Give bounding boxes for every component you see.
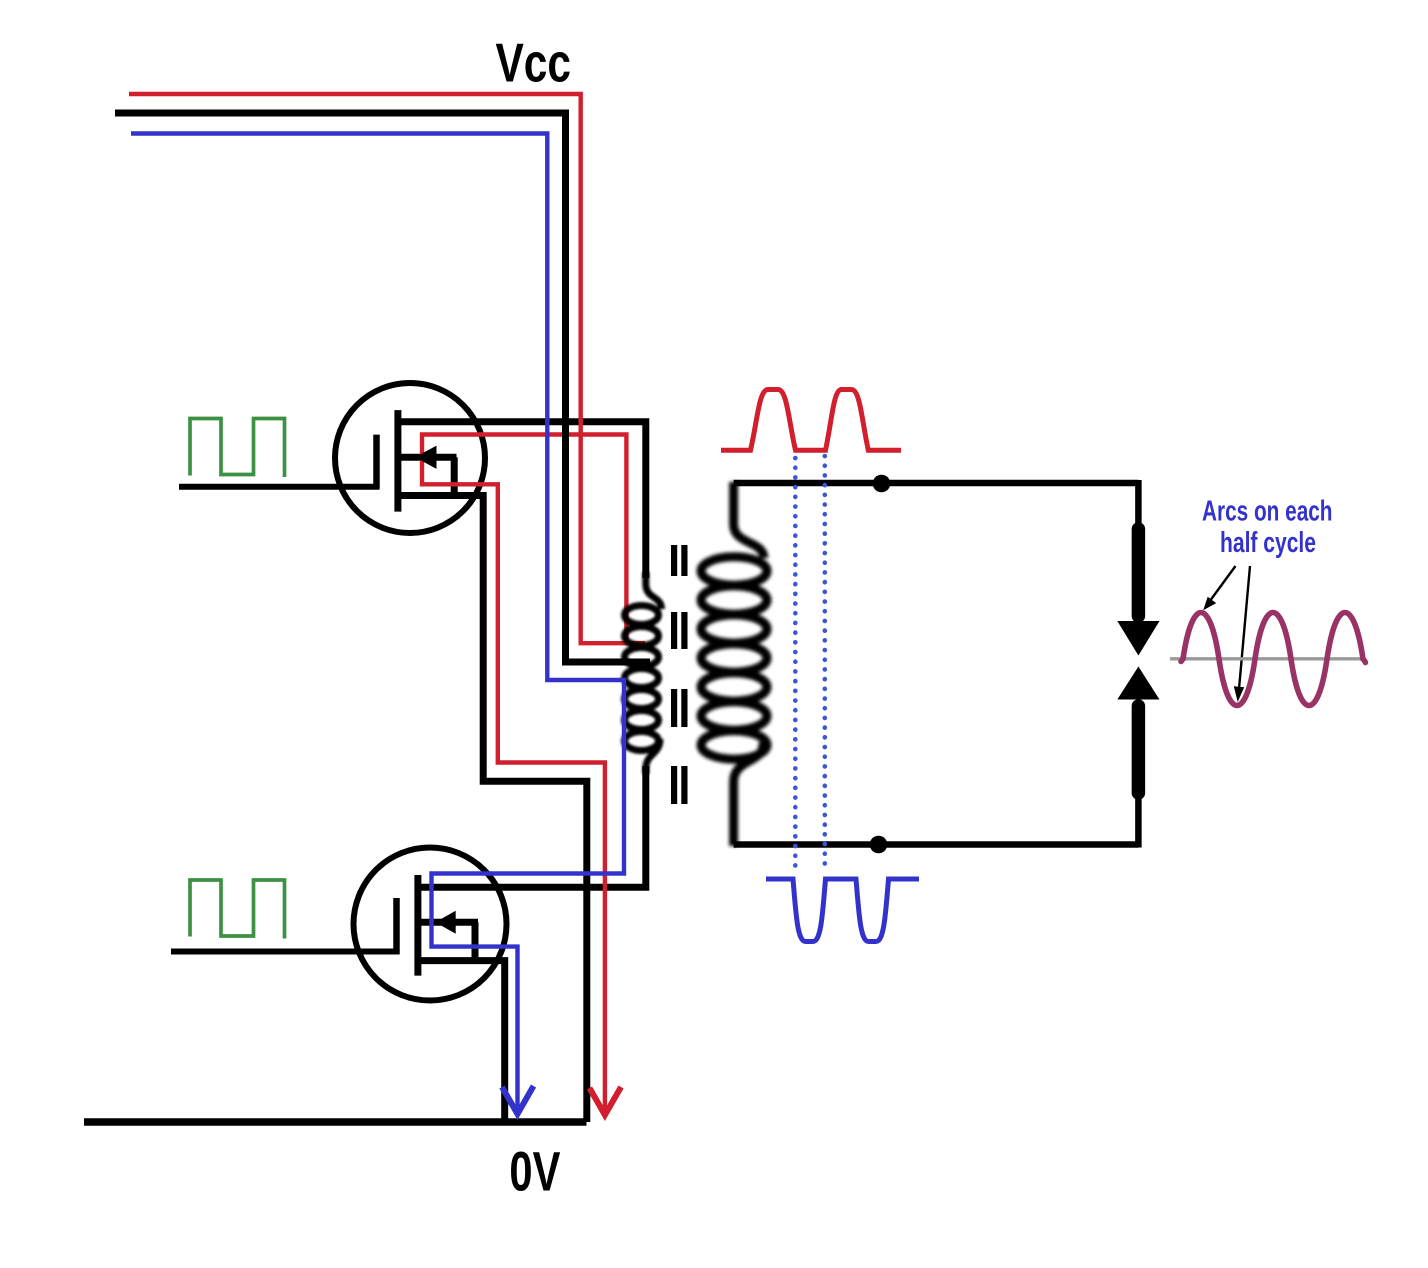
waveform purple output sine [1181,613,1365,706]
spark gap electrodes [1117,480,1159,848]
axis gray zero line [1170,657,1365,660]
wire drain Q2 to transformer primary bottom [418,766,646,887]
annotation arrow to first trough [1234,566,1250,702]
dotted guide line left [793,458,798,866]
wire secondary top [734,480,1139,487]
wire source Q2 down to 0V rail [418,961,505,1122]
svg-text:half cycle: half cycle [1220,527,1316,559]
node secondary top junction dot [873,475,891,493]
square wave gate drive signal Q2 (green) [190,880,285,939]
wire blue current path from Vcc through Q2 to 0V with arrow [131,134,624,1115]
waveform blue negative half cycles on secondary bottom [766,879,919,942]
transformer T1 secondary winding [701,482,767,846]
label Arcs on each half cycle [1202,495,1333,559]
node secondary bottom junction dot [870,836,888,854]
waveform red positive half cycles on secondary top [721,390,901,451]
wire secondary bottom [734,841,1139,848]
wire red current path from Vcc to center tap [129,94,645,643]
svg-text:0V: 0V [509,1139,560,1202]
annotation arrow to first peak [1203,566,1235,610]
transistor Q1 MOSFET top [335,383,485,533]
transistor Q1 body arrow (over red path) [415,446,436,469]
wire black Vcc rail to transformer center tap [115,113,650,662]
transformer T1 core [671,545,688,804]
wire 0V ground rail [84,1118,587,1126]
wire red current path through Q1 to 0V with arrow [422,435,626,1116]
svg-text:Arcs on each: Arcs on each [1202,495,1333,527]
wire gate Q1 [179,484,380,490]
svg-text:Vcc: Vcc [496,33,572,94]
wire drain Q1 to transformer primary top [398,422,646,578]
dotted guide line right [822,456,827,866]
transistor Q2 MOSFET bottom [354,848,507,1001]
square wave gate drive signal Q1 (green) [190,419,285,478]
wire source Q1 down to 0V rail [398,496,587,1123]
wire gate Q2 [171,949,400,955]
transformer T1 primary winding [625,572,662,774]
